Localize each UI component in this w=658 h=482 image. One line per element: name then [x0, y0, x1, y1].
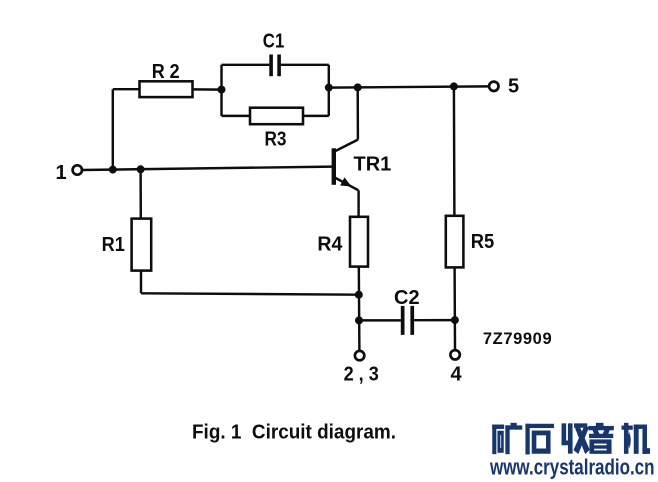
resistor R4 — [350, 217, 368, 267]
resistor R1 — [132, 219, 152, 271]
logo char yin — [589, 423, 614, 453]
node parallel network right to rail — [325, 84, 333, 92]
wire R2 branch vertical — [112, 89, 114, 169]
node at terminal1 rail / R1 branch — [137, 165, 145, 173]
logo char ji — [622, 423, 650, 453]
node R5 on rail — [450, 82, 458, 90]
terminal 2,3 — [355, 351, 364, 360]
wire R3 bottom rail left — [222, 115, 251, 117]
wire R5 branch upper vertical — [453, 86, 456, 215]
svg-text:TR1: TR1 — [354, 153, 392, 175]
svg-text:1: 1 — [56, 162, 67, 184]
wire R2 right lead — [193, 88, 222, 91]
svg-text:R3: R3 — [265, 129, 287, 151]
wire R1 lower vertical — [140, 271, 142, 294]
wire collector vertical — [356, 87, 359, 139]
node R4 bottom / R1 wire — [355, 291, 363, 299]
svg-text:Fig. 1 Circuit diagram.: Fig. 1 Circuit diagram. — [192, 421, 396, 443]
wire R1 bottom horizontal — [141, 293, 359, 294]
svg-text:7Z79909: 7Z79909 — [483, 330, 552, 348]
wire parallel network right vertical — [328, 65, 330, 116]
svg-text:R4: R4 — [317, 234, 343, 256]
wire C2 left lead — [359, 319, 401, 321]
transistor TR1 base bar — [332, 148, 336, 185]
svg-text:www.crystalradio.cn: www.crystalradio.cn — [489, 454, 654, 479]
watermark crystalradio logo — [489, 423, 654, 479]
node R5 / C2 — [451, 316, 459, 324]
node R4 / C2 — [355, 316, 363, 324]
capacitor C2 — [401, 306, 414, 335]
resistor R3 — [250, 108, 303, 125]
wire R5 lower vertical — [453, 267, 456, 350]
transistor TR1 emitter arrow — [340, 177, 351, 186]
wire terminal1 to base — [83, 167, 332, 170]
wire emitter vertical — [357, 190, 359, 217]
wire collector diagonal — [335, 140, 358, 152]
wire C2 right lead — [414, 319, 455, 322]
resistor R5 — [446, 216, 464, 268]
terminal 5 — [489, 82, 498, 91]
wire R2 left lead — [113, 88, 140, 90]
node collector on rail — [354, 83, 362, 91]
resistor R2 — [140, 81, 193, 97]
wire R1 branch upper vertical — [139, 169, 142, 218]
capacitor C1 — [269, 55, 281, 77]
wire top rail to terminal 5 — [329, 86, 488, 87]
terminal 4 — [450, 350, 459, 359]
svg-text:C2: C2 — [394, 287, 420, 309]
svg-text:R 2: R 2 — [152, 61, 180, 83]
logo char kuang — [493, 423, 522, 454]
transistor TR1 emitter diagonal — [335, 178, 359, 191]
wire C1 top rail right — [281, 64, 329, 66]
terminal 1 — [73, 165, 82, 174]
svg-text:4: 4 — [451, 363, 463, 385]
wire below R4 — [358, 267, 361, 351]
wire R3 bottom rail right — [303, 115, 329, 117]
logo char shi — [526, 424, 554, 454]
svg-text:R1: R1 — [102, 234, 125, 256]
svg-text:5: 5 — [508, 76, 519, 98]
svg-text:2 , 3: 2 , 3 — [344, 363, 379, 385]
node R2 to parallel network — [218, 86, 226, 94]
logo char shou — [562, 424, 589, 454]
wire C1 top rail left — [222, 64, 270, 66]
svg-text:C1: C1 — [263, 30, 285, 52]
svg-text:R5: R5 — [471, 231, 495, 253]
node at terminal1 rail / R2 branch — [109, 166, 117, 174]
wire parallel network left vertical — [220, 65, 222, 116]
